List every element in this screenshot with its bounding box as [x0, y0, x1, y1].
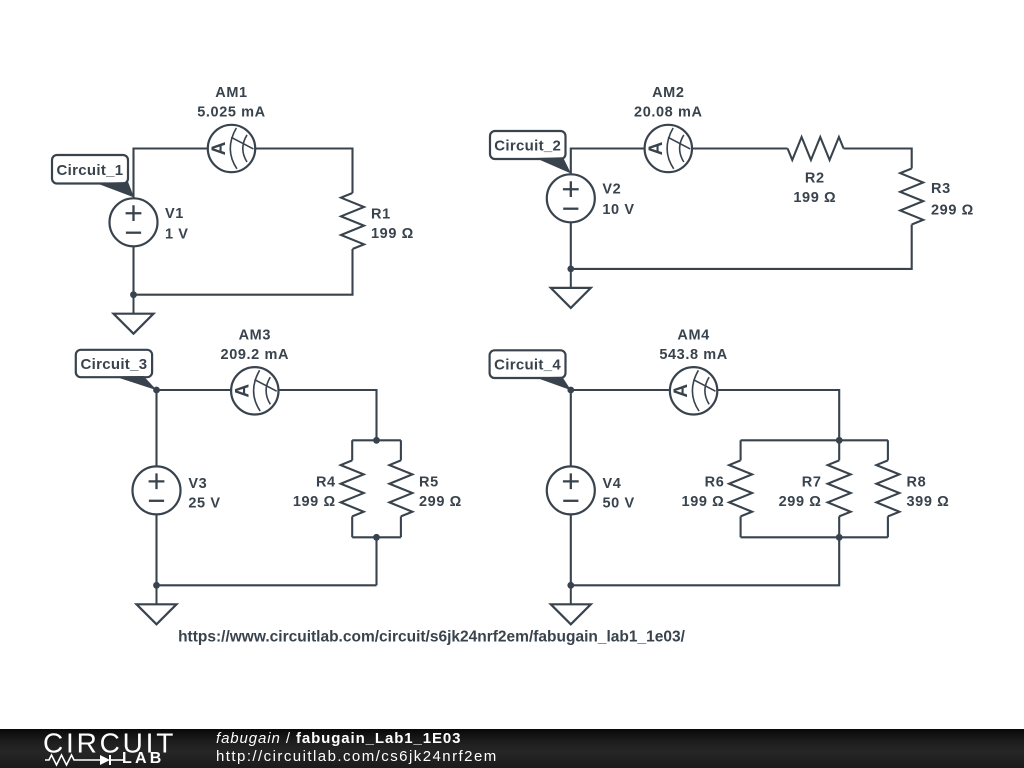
svg-text:50 V: 50 V — [603, 495, 635, 511]
svg-text:V4: V4 — [603, 476, 622, 492]
svg-text:V2: V2 — [602, 182, 621, 198]
svg-text:299 Ω: 299 Ω — [931, 203, 974, 219]
svg-text:AM1: AM1 — [215, 85, 247, 101]
svg-text:199 Ω: 199 Ω — [682, 494, 725, 510]
svg-text:A: A — [209, 141, 230, 155]
svg-text:209.2 mA: 209.2 mA — [221, 347, 289, 363]
svg-text:AM3: AM3 — [239, 328, 271, 344]
svg-text:R7: R7 — [802, 474, 822, 490]
svg-text:R8: R8 — [907, 474, 927, 490]
svg-text:25 V: 25 V — [188, 495, 220, 511]
svg-text:A: A — [671, 384, 692, 398]
svg-text:5.025 mA: 5.025 mA — [197, 104, 265, 120]
svg-text:V1: V1 — [165, 206, 184, 222]
svg-text:199 Ω: 199 Ω — [293, 494, 336, 510]
svg-text:543.8 mA: 543.8 mA — [659, 347, 727, 363]
svg-text:R2: R2 — [805, 170, 825, 186]
svg-text:A: A — [232, 384, 253, 398]
svg-text:1 V: 1 V — [165, 226, 189, 242]
svg-text:10 V: 10 V — [602, 202, 634, 218]
svg-text:R6: R6 — [705, 474, 725, 490]
svg-text:Circuit_1: Circuit_1 — [57, 162, 124, 179]
svg-text:A: A — [646, 141, 667, 155]
svg-text:R3: R3 — [931, 181, 951, 197]
svg-text:V3: V3 — [188, 476, 207, 492]
svg-text:AM4: AM4 — [677, 328, 709, 344]
svg-text:https://www.circuitlab.com/cir: https://www.circuitlab.com/circuit/s6jk2… — [178, 629, 685, 646]
svg-text:399 Ω: 399 Ω — [907, 494, 950, 510]
svg-text:AM2: AM2 — [652, 85, 684, 101]
svg-text:Circuit_4: Circuit_4 — [494, 357, 561, 374]
svg-text:R4: R4 — [316, 474, 336, 490]
svg-text:R1: R1 — [371, 206, 391, 222]
svg-text:Circuit_2: Circuit_2 — [494, 138, 561, 155]
svg-text:R5: R5 — [419, 474, 439, 490]
svg-text:199 Ω: 199 Ω — [793, 190, 836, 206]
svg-text:199 Ω: 199 Ω — [371, 226, 414, 242]
svg-text:299 Ω: 299 Ω — [419, 494, 462, 510]
svg-text:Circuit_3: Circuit_3 — [81, 356, 148, 373]
svg-text:20.08 mA: 20.08 mA — [634, 104, 702, 120]
svg-text:299 Ω: 299 Ω — [779, 494, 822, 510]
